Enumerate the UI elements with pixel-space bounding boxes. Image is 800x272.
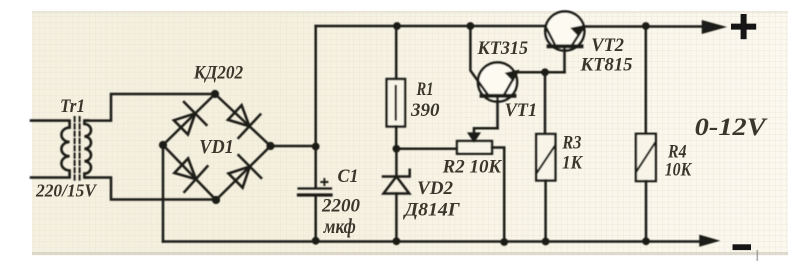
node bridge top AC xyxy=(211,90,219,98)
junction VT1 collector on positive rail xyxy=(467,22,475,30)
svg-text:R3: R3 xyxy=(562,134,582,154)
junction R3 bottom on negative rail xyxy=(542,238,550,246)
svg-text:КТ315: КТ315 xyxy=(477,38,529,59)
junction VD2 anode on negative rail xyxy=(393,237,401,245)
capacitor C1 xyxy=(299,147,332,241)
output arrow negative xyxy=(701,236,716,245)
svg-text:C1: C1 xyxy=(338,166,359,187)
node bridge left DC minus xyxy=(159,141,167,149)
junction R4 top on positive rail xyxy=(642,22,650,30)
transformer Tr1 primary winding xyxy=(31,121,70,178)
svg-text:Tr1: Tr1 xyxy=(60,96,85,117)
junction R4 bottom on negative rail xyxy=(642,237,650,245)
wire negative rail xyxy=(163,240,701,243)
junction C1 top xyxy=(312,143,320,151)
terminal minus symbol xyxy=(733,244,752,250)
diode bridge arm bottom-right xyxy=(216,146,271,200)
svg-text:Д814Г: Д814Г xyxy=(403,200,461,221)
junction R1 bottom / VD2 / R2 left xyxy=(393,145,401,153)
resistor R1 xyxy=(387,26,406,149)
terminal plus symbol xyxy=(731,14,756,39)
wire secondary top to bridge top xyxy=(86,94,215,121)
zener diode VD2 xyxy=(383,149,410,242)
svg-text:0-12V: 0-12V xyxy=(695,114,769,141)
wire positive rail left section xyxy=(316,25,546,28)
junction R1 top on positive rail xyxy=(393,22,401,30)
svg-text:VD1: VD1 xyxy=(199,136,234,158)
svg-text:VD2: VD2 xyxy=(417,178,453,199)
svg-text:R2 10K: R2 10K xyxy=(442,157,503,178)
transformer core xyxy=(75,117,80,182)
wire secondary bottom to bridge bottom xyxy=(86,178,216,200)
svg-text:1K: 1K xyxy=(562,153,583,174)
resistor R3 xyxy=(536,72,555,241)
wire bridge left node to negative rail xyxy=(162,145,165,242)
svg-text:VT2: VT2 xyxy=(591,35,624,56)
junction R2 right on negative rail xyxy=(500,238,508,246)
wire positive rail right section xyxy=(584,25,706,28)
svg-text:R1: R1 xyxy=(416,79,434,100)
bridge diode VD1.2 КД202 (top-right arm) xyxy=(228,105,260,138)
transformer secondary winding xyxy=(84,121,91,178)
bridge diode VD1.3 КД202 (bottom-left arm) xyxy=(174,158,207,192)
svg-text:КД202: КД202 xyxy=(193,63,243,83)
junction C1 bottom on negative rail xyxy=(312,237,320,245)
wire bridge right node to C1 node xyxy=(271,145,316,148)
node bridge bottom AC xyxy=(212,196,220,204)
transistor VT1 xyxy=(470,26,518,128)
transistor VT2 xyxy=(545,11,584,72)
svg-text:390: 390 xyxy=(410,100,440,121)
diode bridge arm bottom-left xyxy=(163,145,216,200)
scan mark below minus xyxy=(757,250,759,261)
wire C1 node up to positive rail xyxy=(314,26,317,147)
node bridge right DC plus xyxy=(266,142,274,150)
svg-text:VT1: VT1 xyxy=(505,101,537,121)
bridge diode VD1.1 КД202 (top-left arm) xyxy=(174,102,207,135)
resistor R4 xyxy=(636,26,656,241)
svg-text:10K: 10K xyxy=(665,160,693,181)
diode bridge VD1 arm top-left xyxy=(163,94,215,145)
svg-text:КТ815: КТ815 xyxy=(580,55,633,76)
diode bridge arm top-right xyxy=(215,94,271,146)
junction VT1 emitter / VT2 base / R3 top xyxy=(541,68,549,76)
wire VT1 emitter to VT2 base node xyxy=(517,71,565,74)
potentiometer R2 xyxy=(396,128,504,242)
output arrow positive xyxy=(703,22,722,33)
bridge diode VD1.4 КД202 (bottom-right arm) xyxy=(229,155,262,188)
svg-text:мкф: мкф xyxy=(323,214,356,238)
svg-text:220/15V: 220/15V xyxy=(35,181,97,201)
